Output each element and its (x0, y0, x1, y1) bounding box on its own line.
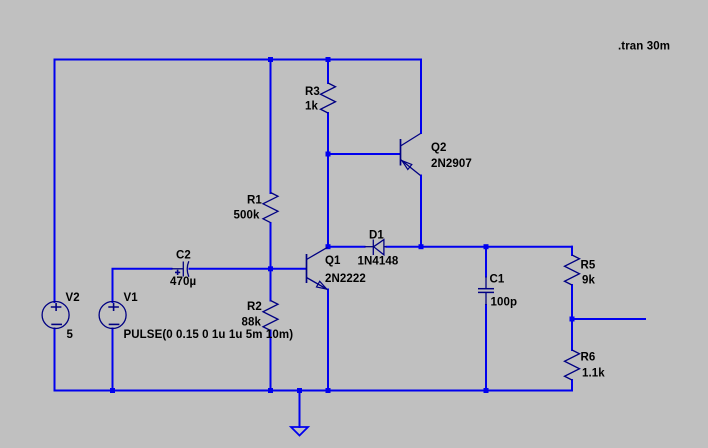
wire Q2 emitter to D1 row (420, 176, 422, 247)
wire R6 bottom to bottom rail (571, 380, 573, 391)
resistor R3 (321, 83, 336, 113)
svg-text:Q2: Q2 (431, 142, 447, 154)
svg-text:88k: 88k (242, 317, 262, 329)
wire output stub (572, 318, 645, 320)
node Q2 emitter / D1 row (419, 244, 424, 249)
svg-text:C1: C1 (490, 274, 505, 286)
wire output node to R6 top (571, 319, 573, 350)
node top rail / R3 (326, 57, 331, 62)
node R3 / Q2 base (326, 152, 331, 157)
svg-text:500k: 500k (234, 209, 260, 221)
wire Q2 emitter node to R5 corner (421, 246, 572, 248)
wire left rail lower (V2 bottom lead) (54, 329, 56, 391)
wire R5 bottom to output node (571, 285, 573, 319)
svg-text:Q1: Q1 (325, 255, 341, 267)
wire Q1 emitter to bottom rail (327, 290, 329, 391)
voltage source V2 (42, 302, 69, 329)
node ground / bottom rail (297, 388, 302, 393)
wire D1 to Q2 emitter node (387, 246, 422, 248)
node mid row / R1 R2 (268, 266, 273, 271)
diode D1 (365, 240, 387, 256)
resistor R2 (263, 301, 278, 331)
ground (291, 427, 308, 436)
svg-text:V1: V1 (124, 292, 139, 304)
wire left rail upper (V2 top lead) (54, 60, 56, 303)
node C1 top (484, 244, 489, 249)
wire Q2 collector to top rail (420, 60, 422, 134)
svg-text:V2: V2 (66, 292, 80, 304)
wire V1 top lead and row to C2 (113, 269, 172, 302)
capacitor C2 (polarized) (172, 261, 189, 276)
svg-text:R3: R3 (305, 86, 320, 98)
node output divider (570, 317, 575, 322)
svg-text:C2: C2 (176, 249, 191, 261)
svg-text:5: 5 (67, 329, 74, 341)
svg-text:R6: R6 (581, 352, 596, 364)
svg-text:100p: 100p (491, 297, 518, 309)
transistor Q1 (307, 247, 328, 289)
capacitor C1 (478, 277, 494, 306)
svg-text:470µ: 470µ (170, 276, 196, 288)
wire V1 bottom lead (112, 329, 114, 391)
voltage source V1 (99, 302, 126, 329)
wire top rail (55, 59, 422, 61)
node top rail / R1 (268, 57, 273, 62)
wire C2 to mid node (190, 268, 271, 270)
svg-text:PULSE(0 0.15 0 1u 1u 5m 10m): PULSE(0 0.15 0 1u 1u 5m 10m) (124, 329, 294, 341)
node V1 / bottom rail (110, 388, 115, 393)
resistor R5 (565, 255, 580, 285)
wire R2 bottom to bottom rail (270, 331, 272, 391)
transistor Q2 (401, 134, 421, 176)
node R2 / bottom rail (268, 388, 273, 393)
svg-text:1N4148: 1N4148 (358, 256, 399, 268)
wire Q2 base (328, 153, 400, 155)
node Q1 emitter / bottom rail (326, 388, 331, 393)
svg-text:2N2222: 2N2222 (325, 273, 366, 285)
svg-text:9k: 9k (582, 275, 595, 287)
svg-text:1.1k: 1.1k (582, 368, 605, 380)
node Q1 collector (326, 244, 331, 249)
wire ground stem (299, 391, 301, 428)
wire Q1 base (271, 268, 306, 270)
svg-text:2N2907: 2N2907 (431, 158, 472, 170)
wire bottom rail (55, 390, 573, 392)
svg-text:.tran 30m: .tran 30m (618, 41, 670, 53)
wire R3 branch from top rail (327, 60, 329, 84)
svg-text:1k: 1k (305, 100, 318, 112)
wire R1 bottom to mid node (270, 223, 272, 269)
resistor R6 (565, 350, 580, 380)
wire mid node to R2 top (270, 269, 272, 301)
svg-text:R5: R5 (581, 260, 596, 272)
resistor R1 (263, 193, 278, 223)
node C1 / bottom rail (484, 388, 489, 393)
wire C1 top lead (485, 247, 487, 277)
svg-text:R1: R1 (247, 194, 262, 206)
svg-text:D1: D1 (369, 230, 384, 242)
wire R3 bottom through Q2-base node to Q1 collector node (327, 113, 329, 247)
wire R5 top drop (571, 247, 573, 255)
wire R1 branch from top rail (270, 60, 272, 194)
wire Q1 collector node to D1 (328, 246, 365, 248)
svg-text:R2: R2 (247, 301, 262, 313)
wire C1 bottom lead to bottom rail (485, 305, 487, 391)
